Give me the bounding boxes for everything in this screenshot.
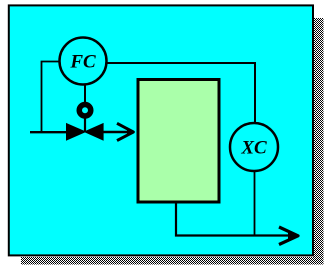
- controller FC: [60, 38, 107, 85]
- wire: FC right to XC top: [107, 63, 255, 123]
- shadow bottom strip: [21, 257, 324, 265]
- shadow right strip: [314, 18, 324, 264]
- wire: FC left branch down to pipe: [42, 62, 61, 133]
- valve V1 body (bowtie): [66, 123, 87, 141]
- svg-text:XC: XC: [240, 137, 267, 158]
- wire: FC bottom to valve actuator: [84, 84, 86, 104]
- svg-text:FC: FC: [69, 52, 96, 73]
- wire: vessel bottom product line with arrow: [176, 204, 296, 236]
- wire: pipe into valve: [30, 131, 68, 133]
- wire: XC bottom to product line: [254, 170, 256, 235]
- valve actuator circle: [79, 104, 91, 116]
- controller XC: [230, 123, 278, 171]
- wire: valve outlet to vessel with arrow: [103, 131, 132, 133]
- valve stem: [84, 116, 86, 131]
- vessel (green box): [138, 80, 219, 203]
